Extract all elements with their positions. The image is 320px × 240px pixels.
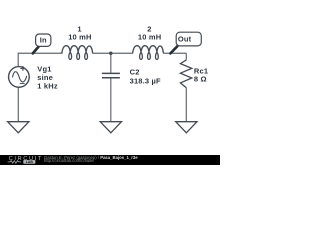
voltage source Vg1 circle <box>9 67 30 88</box>
svg-text:Out: Out <box>178 35 192 44</box>
wire: capacitor bottom lead <box>110 78 112 122</box>
voltage source sine wave <box>13 72 27 82</box>
svg-text:In: In <box>40 36 47 45</box>
voltage source plus sign <box>20 66 25 71</box>
wire: capacitor top lead <box>110 53 112 73</box>
node flag Out box <box>176 32 201 46</box>
footer logo LAB box <box>23 160 35 164</box>
wire: resistor top lead <box>185 53 187 60</box>
resistor Rc1 zigzag <box>180 60 191 88</box>
wire: source bottom lead <box>17 87 19 122</box>
wire: resistor bottom lead <box>185 88 187 122</box>
capacitor C2 plates <box>102 73 120 77</box>
wire: source top lead <box>17 53 19 67</box>
ground (middle, under capacitor) <box>100 122 121 133</box>
wire: top bus left segment <box>18 52 62 54</box>
footer logo resistor squiggle <box>8 161 22 164</box>
svg-text:10 mH: 10 mH <box>138 32 161 41</box>
node flag Out tail <box>170 46 177 53</box>
svg-text:1 kHz: 1 kHz <box>37 82 58 91</box>
svg-text:http://circuitlab.com/c/5u8e: http://circuitlab.com/c/5u8e <box>44 158 94 163</box>
voltage source minus sign <box>20 83 25 85</box>
node flag In tail <box>33 47 39 54</box>
svg-text:C2: C2 <box>130 68 140 77</box>
footer bar <box>0 155 220 165</box>
ground (right, under resistor) <box>176 122 197 133</box>
svg-text:LAB: LAB <box>26 160 34 164</box>
wire: top bus middle segment <box>92 52 132 54</box>
node flag In box <box>36 34 51 46</box>
ground (left, under source) <box>8 122 29 133</box>
inductor L1 coil <box>62 46 93 60</box>
inductor L2 coil <box>133 46 164 60</box>
svg-text:10 mH: 10 mH <box>68 32 91 41</box>
svg-text:8 Ω: 8 Ω <box>194 75 207 84</box>
wire: top bus right segment <box>163 52 186 54</box>
svg-text:318.3 µF: 318.3 µF <box>130 76 161 85</box>
node junction dot <box>109 52 113 56</box>
